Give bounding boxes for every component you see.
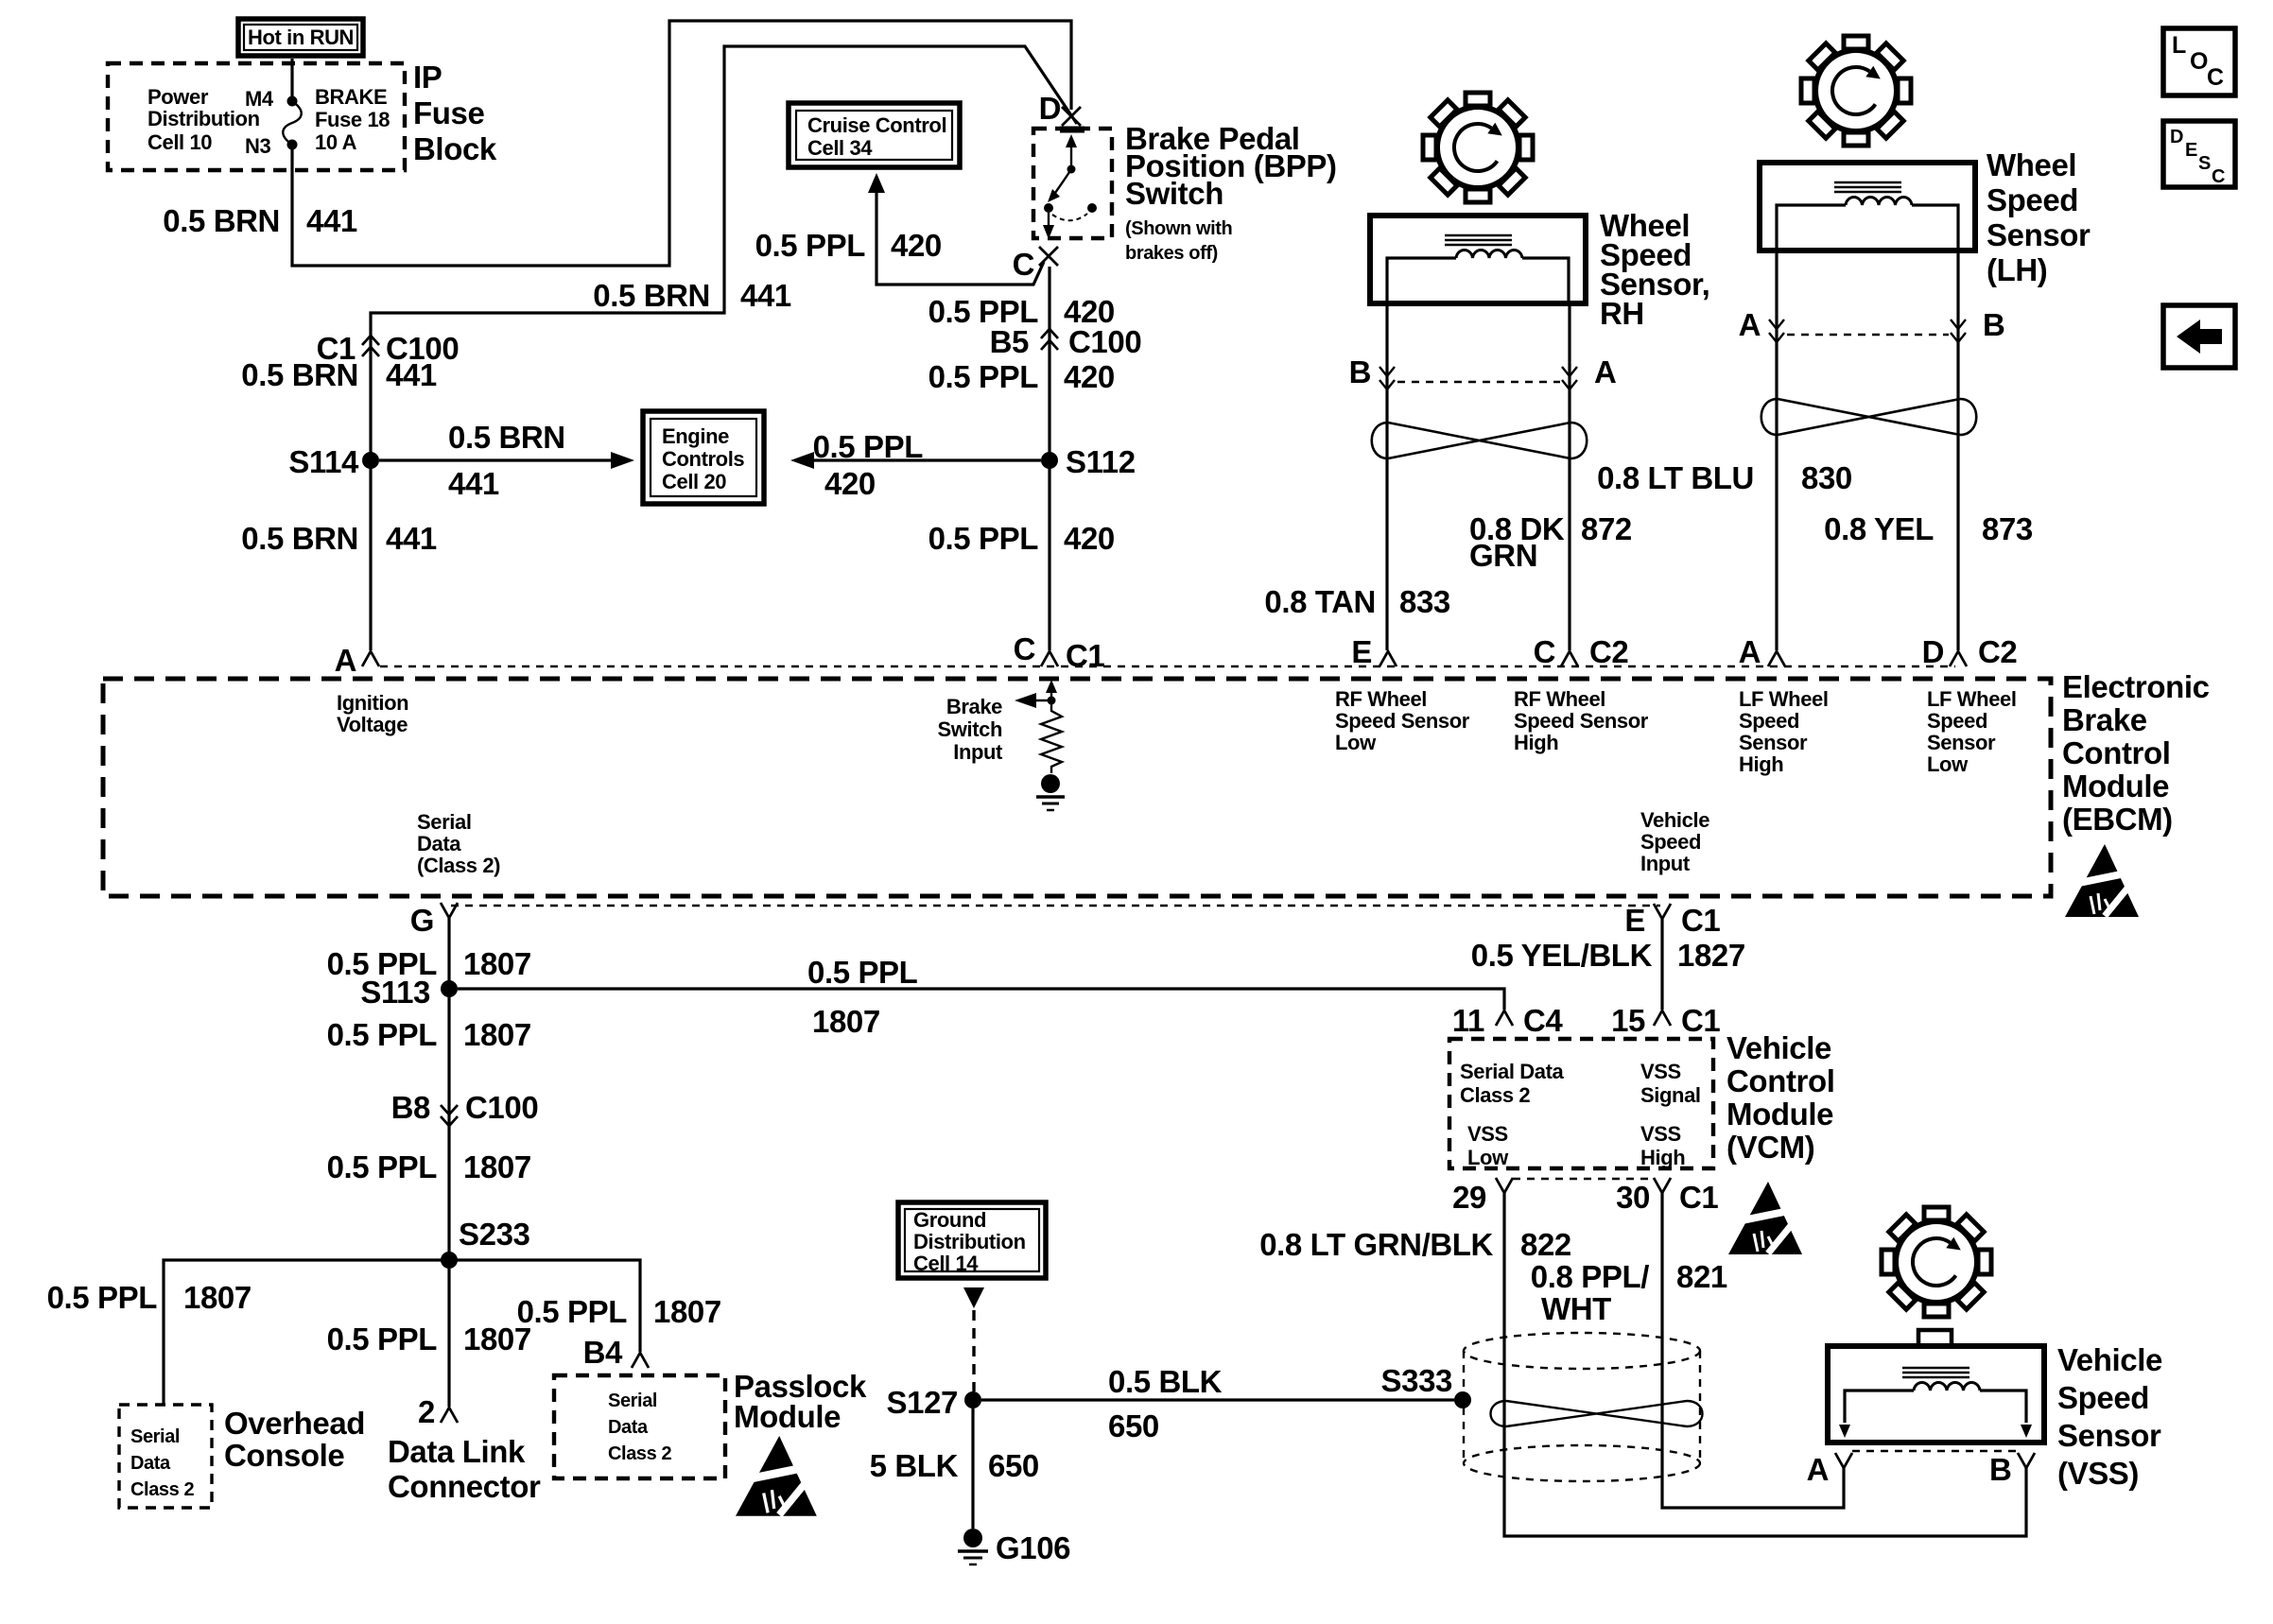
- label Serial Data Class 2 (VCM): [1460, 1060, 1564, 1107]
- BPP arrow down to C: [1043, 213, 1054, 239]
- svg-text:0.5 BRN: 0.5 BRN: [448, 420, 565, 455]
- svg-text:B: B: [1983, 307, 2004, 342]
- RH inline connector chevrons A: [1562, 354, 1616, 389]
- wire label 0.8 TAN 833: [1264, 584, 1450, 619]
- pin A VSS: [1807, 1452, 1852, 1487]
- svg-text:LF Wheel: LF Wheel: [1927, 687, 2017, 711]
- svg-text:Serial: Serial: [608, 1391, 657, 1411]
- module Ground Distribution Cell 14: [898, 1202, 1046, 1278]
- Passlock dashed box with Serial Data Class 2: [554, 1375, 725, 1478]
- svg-text:Brake: Brake: [2062, 702, 2147, 737]
- svg-text:(VCM): (VCM): [1726, 1130, 1814, 1165]
- svg-text:brakes off): brakes off): [1125, 243, 1218, 264]
- svg-text:G106: G106: [996, 1530, 1070, 1565]
- wire label 0.5 BLK 650: [1108, 1364, 1223, 1443]
- svg-text:Serial Data: Serial Data: [1460, 1060, 1564, 1083]
- wire label 0.5 PPL 420: [928, 521, 1115, 556]
- label LF Wheel Speed Sensor High: [1739, 687, 1829, 776]
- svg-text:Hot in RUN: Hot in RUN: [248, 26, 354, 49]
- wire BPP C to Cruise Control arrow: [755, 173, 1044, 285]
- terminal D of BPP switch: [1039, 91, 1081, 126]
- back arrow icon box: [2163, 305, 2235, 368]
- svg-text:Brake: Brake: [946, 695, 1002, 718]
- ESD symbol VCM: [1728, 1182, 1802, 1254]
- label LF Wheel Speed Sensor Low: [1927, 687, 2017, 776]
- wire S233 branch right to Passlock: [449, 1260, 640, 1352]
- svg-text:Fuse 18: Fuse 18: [315, 108, 390, 131]
- svg-text:5 BLK: 5 BLK: [870, 1448, 959, 1483]
- svg-text:S333: S333: [1381, 1363, 1453, 1398]
- label Ignition Voltage: [337, 691, 408, 736]
- svg-text:420: 420: [1064, 521, 1115, 556]
- svg-text:Speed: Speed: [1987, 182, 2078, 217]
- shield cylinder around twisted pair: [1464, 1333, 1700, 1481]
- svg-text:Signal: Signal: [1640, 1083, 1701, 1107]
- svg-text:Cell 20: Cell 20: [662, 470, 726, 493]
- svg-text:Controls: Controls: [662, 447, 744, 471]
- svg-text:Input: Input: [953, 740, 1003, 764]
- pin 30 C1 VSS high: [1616, 1178, 1718, 1215]
- svg-text:C: C: [1534, 634, 1555, 669]
- wire E to VCM pin 15: [1660, 919, 1663, 1010]
- svg-text:GRN: GRN: [1469, 538, 1537, 573]
- svg-text:Data Link: Data Link: [388, 1434, 526, 1469]
- wire label 0.8 LT GRN/BLK 822: [1259, 1227, 1571, 1262]
- module Engine Controls Cell 20: [643, 411, 764, 504]
- svg-text:C1: C1: [1681, 903, 1720, 938]
- svg-text:Sensor: Sensor: [2057, 1418, 2161, 1453]
- wire label 0.5 PPL 1807 (DLC): [327, 1322, 531, 1356]
- wire label 0.5 PPL 1807 (long run): [807, 955, 918, 1039]
- svg-text:0.5 BLK: 0.5 BLK: [1108, 1364, 1223, 1399]
- pin A ignition voltage: [335, 643, 379, 678]
- label Vehicle Control Module (VCM): [1726, 1030, 1835, 1165]
- svg-text:B4: B4: [583, 1335, 623, 1370]
- wire label 0.8 YEL 873: [1824, 511, 2033, 546]
- svg-text:B: B: [1349, 354, 1371, 389]
- wire label 0.5 BRN 441: [593, 278, 791, 313]
- svg-text:High: High: [1739, 752, 1783, 776]
- svg-text:B8: B8: [391, 1090, 430, 1125]
- svg-text:Class 2: Class 2: [130, 1479, 195, 1500]
- label Electronic Brake Control Module (EBCM): [2062, 669, 2210, 837]
- svg-text:0.8 LT GRN/BLK: 0.8 LT GRN/BLK: [1259, 1227, 1493, 1262]
- svg-text:2: 2: [418, 1394, 435, 1429]
- wire label 0.5 PPL 1807 (overhead console): [47, 1280, 252, 1315]
- LH wheel speed sensor box: [1760, 163, 1975, 251]
- svg-text:0.8 TAN: 0.8 TAN: [1264, 584, 1376, 619]
- DESC icon box: [2163, 121, 2235, 187]
- module Cruise Control Cell 34: [789, 103, 960, 167]
- svg-text:0.5 PPL: 0.5 PPL: [517, 1294, 628, 1329]
- EBCM connector face dashed line bottom: [451, 905, 1660, 907]
- svg-text:0.5 PPL: 0.5 PPL: [928, 521, 1039, 556]
- RH twisted pair: [1372, 423, 1588, 458]
- svg-text:Voltage: Voltage: [337, 713, 408, 736]
- svg-text:0.5 PPL: 0.5 PPL: [327, 1322, 438, 1356]
- pin B4 passlock: [583, 1335, 649, 1370]
- svg-text:Fuse: Fuse: [413, 95, 484, 130]
- svg-text:C1: C1: [1681, 1003, 1720, 1038]
- svg-text:830: 830: [1801, 460, 1852, 495]
- svg-text:O: O: [2190, 48, 2208, 75]
- svg-text:441: 441: [448, 466, 499, 501]
- svg-text:Overhead: Overhead: [224, 1406, 365, 1441]
- svg-text:0.5 PPL: 0.5 PPL: [755, 228, 866, 263]
- dashed wire to S127: [972, 1310, 975, 1391]
- wire RH sensor lead A: [1568, 302, 1570, 650]
- svg-text:Speed: Speed: [1927, 709, 1987, 733]
- ESD symbol EBCM: [2065, 844, 2139, 917]
- svg-text:BRAKE: BRAKE: [315, 85, 387, 109]
- svg-text:E: E: [1624, 903, 1645, 938]
- wire label 0.5 PPL 1807: [327, 1149, 531, 1184]
- svg-text:Low: Low: [1335, 731, 1377, 754]
- svg-text:A: A: [1739, 634, 1761, 669]
- LOC icon box: [2163, 28, 2235, 95]
- svg-text:0.5 BRN: 0.5 BRN: [241, 357, 358, 392]
- label Passlock Module: [734, 1369, 867, 1434]
- svg-text:Speed: Speed: [2057, 1380, 2149, 1415]
- pin 11 C4 VCM: [1452, 1003, 1564, 1038]
- pin 2 data link connector: [418, 1394, 458, 1429]
- splice S112: [1041, 444, 1136, 479]
- svg-text:A: A: [1739, 307, 1761, 342]
- label Data Link Connector: [388, 1434, 541, 1504]
- svg-text:S113: S113: [360, 975, 430, 1010]
- pin C brake switch input: [1014, 631, 1105, 673]
- pin 29 VSS low: [1452, 1178, 1513, 1215]
- wire RH sensor lead B: [1385, 302, 1388, 650]
- pin E RF wheel speed sensor low: [1351, 634, 1397, 669]
- label Power Distribution Cell 10: [147, 85, 260, 154]
- svg-text:High: High: [1514, 731, 1558, 754]
- BPP alternate position dashed arc: [1052, 214, 1087, 220]
- svg-text:0.5 PPL: 0.5 PPL: [327, 1017, 438, 1052]
- svg-text:441: 441: [740, 278, 791, 313]
- splice S127: [887, 1385, 981, 1420]
- svg-text:0.8 PPL/: 0.8 PPL/: [1531, 1259, 1649, 1294]
- svg-text:Low: Low: [1927, 752, 1969, 776]
- svg-text:0.8 YEL: 0.8 YEL: [1824, 511, 1934, 546]
- svg-text:C: C: [1014, 631, 1035, 666]
- wire S114 to Engine Controls: [379, 420, 634, 501]
- svg-text:Cruise Control: Cruise Control: [807, 113, 946, 137]
- svg-text:L: L: [2172, 32, 2186, 59]
- label Wheel Speed Sensor (LH): [1987, 147, 2091, 287]
- svg-text:(Class 2): (Class 2): [417, 854, 500, 877]
- LH connector dashed line: [1787, 334, 1949, 336]
- svg-text:Vehicle: Vehicle: [2057, 1342, 2162, 1377]
- svg-text:D: D: [2170, 127, 2183, 147]
- svg-text:D: D: [1922, 634, 1944, 669]
- svg-text:S233: S233: [459, 1217, 530, 1252]
- svg-text:Connector: Connector: [388, 1469, 541, 1504]
- svg-text:C1: C1: [1066, 638, 1104, 673]
- wire LH sensor lead B: [1956, 249, 1959, 650]
- svg-text:Sensor: Sensor: [1987, 217, 2091, 252]
- svg-text:S: S: [2198, 153, 2211, 174]
- svg-text:441: 441: [386, 521, 437, 556]
- svg-text:Power: Power: [147, 85, 209, 109]
- svg-text:Electronic: Electronic: [2062, 669, 2210, 704]
- ground inside EBCM: [1036, 774, 1065, 810]
- svg-text:C2: C2: [1589, 634, 1628, 669]
- svg-text:S127: S127: [887, 1385, 958, 1420]
- pin 15 C1 VCM: [1611, 1003, 1720, 1038]
- pin D LF wheel speed sensor low: [1922, 634, 2018, 669]
- svg-text:Ground: Ground: [913, 1208, 986, 1232]
- wire S233 branch left to Overhead Console: [164, 1260, 449, 1404]
- wire LH sensor lead A: [1775, 249, 1778, 650]
- ESD symbol Passlock: [736, 1436, 817, 1516]
- svg-text:0.5 PPL: 0.5 PPL: [327, 1149, 438, 1184]
- pin C RF wheel speed sensor high: [1534, 634, 1629, 669]
- svg-text:Module: Module: [1726, 1097, 1833, 1132]
- arrow from ground distribution: [963, 1287, 984, 1308]
- pin E VSS signal to EBCM: [1624, 903, 1720, 938]
- wire pin 30 to VSS A: [1662, 1193, 1844, 1508]
- svg-text:B: B: [1989, 1452, 2011, 1487]
- svg-text:0.5 PPL: 0.5 PPL: [807, 955, 918, 990]
- Hot in RUN label box: [238, 19, 363, 56]
- connector B5 C100 inline: [990, 324, 1142, 359]
- svg-text:Cell 34: Cell 34: [807, 136, 873, 160]
- svg-text:872: 872: [1581, 511, 1632, 546]
- svg-text:RF Wheel: RF Wheel: [1514, 687, 1605, 711]
- svg-text:Distribution: Distribution: [913, 1230, 1026, 1253]
- svg-text:441: 441: [386, 357, 437, 392]
- svg-text:Sensor: Sensor: [1739, 731, 1808, 754]
- svg-text:VSS: VSS: [1640, 1122, 1681, 1146]
- wire label 0.8 LT BLU 830: [1597, 460, 1852, 495]
- svg-text:C2: C2: [1978, 634, 2017, 669]
- wire S113 to VCM pin 11: [458, 989, 1504, 1010]
- splice S113: [360, 975, 458, 1010]
- svg-text:G: G: [410, 903, 434, 938]
- svg-text:Vehicle: Vehicle: [1726, 1030, 1831, 1065]
- twisted pair VSS: [1491, 1401, 1703, 1426]
- svg-text:A: A: [335, 643, 356, 678]
- svg-text:C4: C4: [1523, 1003, 1563, 1038]
- wire label 0.5 PPL 1807 (passlock): [517, 1294, 721, 1329]
- svg-text:LF Wheel: LF Wheel: [1739, 687, 1829, 711]
- wire label 0.5 YEL/BLK 1827: [1471, 938, 1745, 973]
- svg-text:Block: Block: [413, 131, 497, 166]
- svg-text:Engine: Engine: [662, 424, 729, 448]
- VCM bottom connector dashed line: [1513, 1178, 1654, 1180]
- svg-text:A: A: [1807, 1452, 1829, 1487]
- label Serial Data (Class 2): [417, 810, 500, 877]
- EBCM module dashed box: [103, 679, 2051, 896]
- svg-text:15: 15: [1611, 1003, 1645, 1038]
- svg-text:C: C: [2207, 64, 2224, 91]
- label VSS Signal (VCM): [1640, 1060, 1701, 1107]
- wire pin 29 to VSS B: [1504, 1193, 2026, 1536]
- svg-text:E: E: [2185, 140, 2197, 161]
- label VSS Low (VCM): [1467, 1122, 1509, 1169]
- connector C1 C100 inline: [317, 331, 460, 366]
- svg-text:420: 420: [1064, 359, 1115, 394]
- svg-text:1807: 1807: [463, 1017, 531, 1052]
- wire label 0.8 DK GRN 872: [1469, 511, 1632, 573]
- svg-text:(EBCM): (EBCM): [2062, 802, 2173, 837]
- svg-text:Control: Control: [1726, 1063, 1835, 1098]
- EBCM brake input arrow and node: [1015, 680, 1057, 708]
- pin G serial data: [410, 903, 458, 938]
- svg-text:650: 650: [1108, 1408, 1159, 1443]
- BPP contact dots: [1044, 203, 1053, 213]
- svg-text:VSS: VSS: [1467, 1122, 1508, 1146]
- svg-text:29: 29: [1452, 1180, 1486, 1215]
- svg-text:M4: M4: [245, 87, 274, 111]
- svg-text:1807: 1807: [653, 1294, 721, 1329]
- svg-text:0.8 LT BLU: 0.8 LT BLU: [1597, 460, 1754, 495]
- svg-text:Input: Input: [1640, 852, 1691, 875]
- svg-text:Speed Sensor: Speed Sensor: [1514, 709, 1649, 733]
- svg-text:Module: Module: [734, 1399, 841, 1434]
- pin B VSS: [1989, 1452, 2035, 1487]
- svg-text:420: 420: [824, 466, 876, 501]
- ground G106: [958, 1529, 1070, 1565]
- svg-text:Data: Data: [130, 1453, 171, 1474]
- wire label 0.5 BRN 441: [163, 203, 357, 238]
- svg-text:821: 821: [1676, 1259, 1727, 1294]
- Brake Pedal Position switch dashed box: [1033, 129, 1112, 238]
- svg-text:822: 822: [1520, 1227, 1571, 1262]
- svg-text:10 A: 10 A: [315, 130, 357, 154]
- resistor pull-down in EBCM: [1041, 704, 1062, 773]
- RH connector dashed line: [1397, 381, 1560, 383]
- svg-text:420: 420: [891, 228, 942, 263]
- svg-text:Switch: Switch: [1125, 176, 1223, 211]
- label Brake Switch Input: [938, 695, 1004, 764]
- svg-text:650: 650: [988, 1448, 1039, 1483]
- label Vehicle Speed Sensor (VSS): [2057, 1342, 2162, 1491]
- svg-text:Ignition: Ignition: [337, 691, 408, 715]
- svg-text:0.5 BRN: 0.5 BRN: [163, 203, 280, 238]
- svg-text:Class 2: Class 2: [1460, 1083, 1530, 1107]
- LH reluctor gear: [1801, 36, 1911, 146]
- VSS reluctor gear: [1882, 1207, 1991, 1317]
- svg-text:0.5 BRN: 0.5 BRN: [593, 278, 710, 313]
- svg-text:(LH): (LH): [1987, 252, 2047, 287]
- svg-text:E: E: [1351, 634, 1372, 669]
- svg-text:Module: Module: [2062, 769, 2169, 803]
- wire BRN 441 branch from D through C100 to S114: [371, 46, 1077, 650]
- label Vehicle Speed Input: [1640, 808, 1709, 875]
- svg-text:873: 873: [1982, 511, 2033, 546]
- svg-text:RH: RH: [1600, 296, 1644, 331]
- terminal C of BPP switch: [1013, 247, 1058, 282]
- wire serial data G to S233 to DLC: [447, 918, 450, 1407]
- svg-text:441: 441: [306, 203, 357, 238]
- svg-text:Sensor: Sensor: [1927, 731, 1996, 754]
- svg-text:11: 11: [1452, 1003, 1484, 1038]
- svg-text:C100: C100: [1068, 324, 1141, 359]
- svg-text:D: D: [1039, 91, 1061, 126]
- wire S127 to G106: [971, 1408, 974, 1529]
- BPP switch blade to contact: [1048, 169, 1071, 202]
- splice S233: [441, 1217, 530, 1269]
- svg-text:30: 30: [1616, 1180, 1650, 1215]
- wire fuse output 441 to BPP terminal D: [292, 21, 1071, 266]
- svg-text:C: C: [2212, 166, 2225, 187]
- LH twisted pair: [1761, 399, 1977, 435]
- label IP Fuse Block: [413, 60, 497, 166]
- svg-text:Vehicle: Vehicle: [1640, 808, 1709, 832]
- RH reluctor gear: [1423, 93, 1533, 202]
- RH inline connector chevrons B: [1349, 354, 1395, 389]
- label Wheel Speed Sensor, RH: [1600, 208, 1709, 331]
- VSS sensor box: [1828, 1330, 2044, 1443]
- svg-text:0.5 PPL: 0.5 PPL: [813, 429, 924, 464]
- svg-text:Speed: Speed: [1739, 709, 1799, 733]
- svg-text:Control: Control: [2062, 735, 2171, 770]
- RH wheel speed sensor box: [1370, 216, 1586, 303]
- svg-text:Speed Sensor: Speed Sensor: [1335, 709, 1470, 733]
- splice S333 shield drain: [1381, 1363, 1471, 1408]
- svg-text:1807: 1807: [812, 1004, 880, 1039]
- wire PPL 420 from C down to EBCM: [1048, 267, 1050, 650]
- VCM module dashed box: [1449, 1039, 1713, 1168]
- svg-text:Cell 10: Cell 10: [147, 130, 212, 154]
- wire label 0.8 PPL/WHT 821: [1531, 1259, 1727, 1326]
- svg-text:Switch: Switch: [938, 717, 1003, 741]
- EBCM connector face dashed line top: [380, 665, 1955, 667]
- svg-text:VSS: VSS: [1640, 1060, 1681, 1083]
- svg-text:C1: C1: [1679, 1180, 1718, 1215]
- svg-text:Cell 14: Cell 14: [913, 1252, 979, 1275]
- LH inline connector chevrons A: [1739, 307, 1784, 342]
- wire label 5 BLK 650: [870, 1448, 1039, 1483]
- svg-text:0.5 YEL/BLK: 0.5 YEL/BLK: [1471, 938, 1653, 973]
- label RF Wheel Speed Sensor Low: [1335, 687, 1470, 754]
- svg-text:WHT: WHT: [1541, 1291, 1611, 1326]
- splice S114: [288, 444, 379, 479]
- connector B8 C100 inline: [391, 1090, 539, 1126]
- svg-text:B5: B5: [990, 324, 1029, 359]
- svg-text:1807: 1807: [183, 1280, 252, 1315]
- label VSS High (VCM): [1640, 1122, 1685, 1169]
- svg-text:Low: Low: [1467, 1146, 1509, 1169]
- svg-text:0.5 PPL: 0.5 PPL: [47, 1280, 158, 1315]
- svg-text:1807: 1807: [463, 1149, 531, 1184]
- svg-text:N3: N3: [245, 134, 270, 158]
- svg-text:S114: S114: [288, 444, 359, 479]
- svg-text:Serial: Serial: [417, 810, 472, 834]
- svg-text:A: A: [1594, 354, 1616, 389]
- wire label 0.5 PPL 420: [928, 359, 1115, 394]
- BPP switch arm arrow up: [1066, 134, 1077, 167]
- wire label 0.5 PPL 1807: [327, 1017, 531, 1052]
- svg-text:S112: S112: [1066, 444, 1136, 479]
- IP Fuse Block dashed box: [108, 63, 405, 170]
- svg-text:IP: IP: [413, 60, 442, 95]
- BPP switch fixed contact bar: [1060, 127, 1084, 133]
- wire label 0.5 BRN 441: [241, 521, 437, 556]
- svg-text:(Shown with: (Shown with: [1125, 218, 1232, 239]
- svg-text:1807: 1807: [463, 946, 531, 981]
- svg-text:Console: Console: [224, 1438, 344, 1473]
- fuse BRAKE Fuse 18 10 A: [283, 59, 390, 154]
- wire label 0.5 PPL 1807: [327, 946, 531, 981]
- svg-text:RF Wheel: RF Wheel: [1335, 687, 1427, 711]
- wire label 0.5 BRN 441: [241, 357, 437, 392]
- svg-text:1827: 1827: [1677, 938, 1745, 973]
- svg-text:Data: Data: [417, 832, 461, 855]
- wire S127 to S333: [981, 1398, 1454, 1401]
